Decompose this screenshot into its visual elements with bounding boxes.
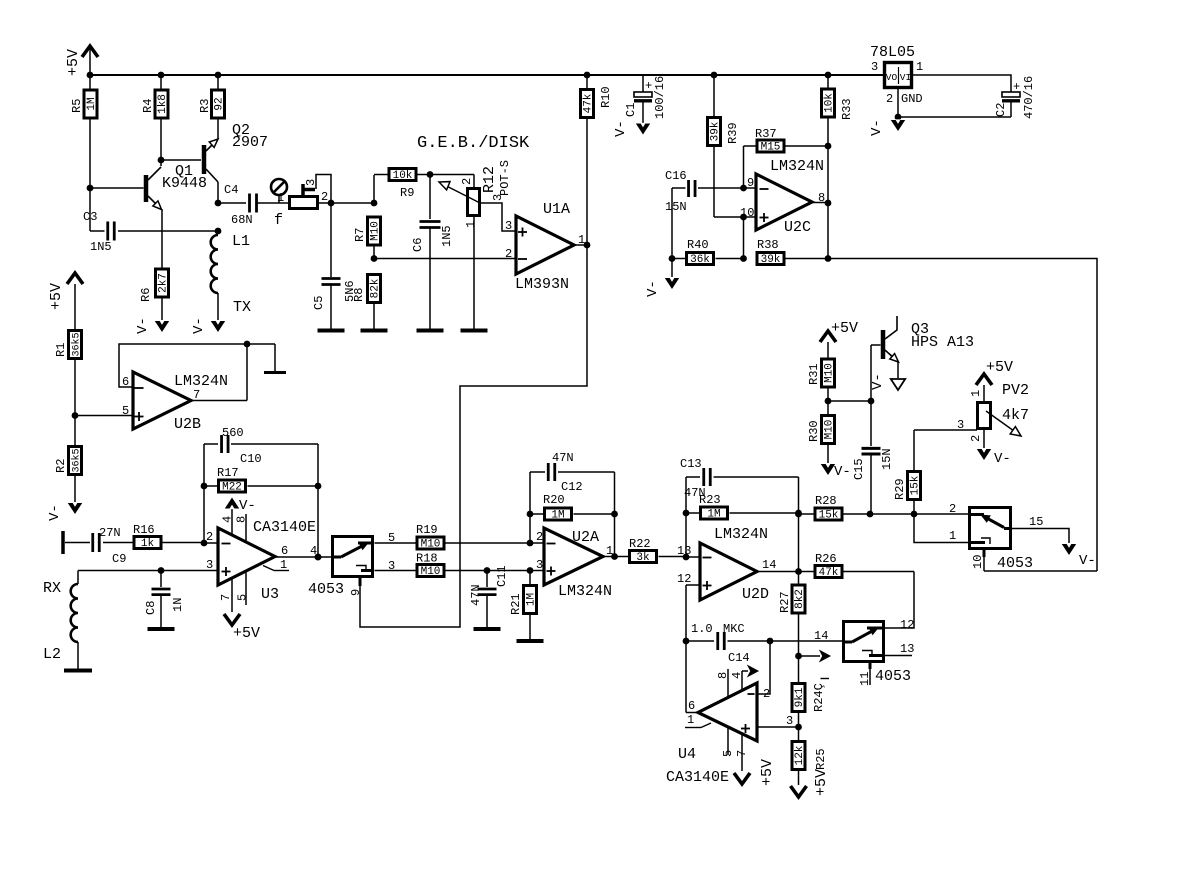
- wire C2 to 78L05 GND: [898, 116, 1011, 118]
- svg-text:12k: 12k: [794, 745, 806, 765]
- svg-text:2k7: 2k7: [158, 273, 170, 293]
- svg-text:V-: V-: [613, 120, 629, 137]
- svg-text:1: 1: [280, 558, 287, 572]
- power V- below L1: [211, 321, 225, 332]
- svg-text:2: 2: [949, 502, 956, 516]
- capacitor C2 470/16 electrolytic: [1002, 92, 1020, 97]
- junction C15/R28: [867, 511, 874, 518]
- svg-text:9k1: 9k1: [794, 687, 806, 707]
- svg-text:82k: 82k: [370, 278, 382, 298]
- svg-text:39k: 39k: [710, 121, 722, 141]
- wire U2A pin3 stub: [530, 570, 544, 572]
- svg-text:LM393N: LM393N: [515, 276, 569, 293]
- wire U2B feedback loop: [119, 344, 275, 387]
- U3 pin5: [245, 573, 247, 606]
- svg-text:1M: 1M: [526, 593, 538, 606]
- svg-text:47k: 47k: [583, 93, 595, 113]
- transistor Q2 2907: [202, 145, 207, 174]
- svg-text:68N: 68N: [231, 213, 253, 227]
- svg-text:U2B: U2B: [174, 416, 201, 433]
- svg-text:2: 2: [886, 92, 893, 106]
- wire U3 pin3 row: [78, 570, 218, 572]
- svg-text:R16: R16: [133, 523, 155, 537]
- power V- switch3: [1062, 544, 1076, 555]
- ground C6: [417, 329, 444, 333]
- U4 pin1 stub: [701, 723, 711, 728]
- wire U2D pin12 stub: [686, 584, 700, 586]
- capacitor C9 27N: [65, 542, 90, 544]
- wire R33 down to U2C output node: [827, 118, 829, 259]
- capacitor C8 1N: [160, 571, 162, 588]
- svg-text:M10: M10: [370, 221, 382, 241]
- wire 78L05 pin1 to C2: [913, 75, 1011, 92]
- svg-text:C12: C12: [561, 480, 583, 494]
- svg-text:PV2: PV2: [1002, 382, 1029, 399]
- svg-text:R6: R6: [139, 288, 153, 302]
- ground C11: [474, 627, 501, 631]
- node R7/R8 divider: [371, 255, 378, 262]
- svg-text:1k8: 1k8: [157, 94, 169, 114]
- capacitor C14 1.0 MKC: [686, 640, 714, 642]
- op-amp U3 CA3140E: [218, 528, 275, 585]
- svg-text:5: 5: [388, 531, 395, 545]
- wire R5 to Q1 base node: [89, 120, 91, 189]
- junction U2D out / R26: [795, 568, 802, 575]
- svg-text:LM324N: LM324N: [714, 526, 768, 543]
- svg-text:8: 8: [716, 672, 730, 679]
- svg-text:V-: V-: [1079, 553, 1096, 569]
- svg-text:R12: R12: [481, 166, 498, 193]
- resistor R19 M10: [375, 542, 417, 544]
- svg-text:R37: R37: [755, 127, 777, 141]
- analog switch 4053 #2 (U5b): [844, 622, 884, 662]
- svg-text:M22: M22: [222, 482, 242, 494]
- svg-text:92: 92: [214, 97, 226, 110]
- coil L2 RX: [77, 571, 79, 585]
- junction Q1-collector/Q2-base: [158, 157, 165, 164]
- svg-text:39k: 39k: [761, 254, 781, 266]
- junction R28/R29/switch: [911, 511, 918, 518]
- junction bus-R3: [215, 72, 222, 79]
- svg-text:C10: C10: [240, 452, 262, 466]
- wire U2B pin5: [75, 415, 133, 417]
- junction U2C out: [825, 200, 832, 207]
- wire GEB signal to switch U5 pin10: [828, 259, 1097, 572]
- power V- below R6: [155, 321, 169, 332]
- svg-text:+5V: +5V: [813, 769, 830, 796]
- svg-text:1: 1: [464, 221, 478, 228]
- svg-text:36k: 36k: [690, 254, 710, 266]
- wire U2A pin2 stub: [530, 542, 544, 544]
- capacitor C4 68N: [218, 202, 246, 204]
- pot PV2 4k7: [978, 403, 991, 429]
- op-amp U2B LM324N: [133, 372, 191, 429]
- junction R16/U3 pin2: [201, 540, 208, 547]
- svg-text:R29: R29: [893, 478, 907, 500]
- svg-text:R39: R39: [726, 122, 740, 144]
- resistor R20 1M: [527, 511, 534, 518]
- wire U2A output: [603, 556, 615, 558]
- svg-text:1N5: 1N5: [440, 225, 454, 247]
- wire up to R9: [373, 175, 375, 203]
- junction R38/R33/U2C-out: [825, 255, 832, 262]
- svg-text:f: f: [274, 212, 283, 229]
- svg-text:8: 8: [235, 516, 249, 523]
- wire U2C pin10 row: [714, 216, 756, 218]
- svg-text:9: 9: [747, 176, 754, 190]
- wire R12 pin1 to ground: [473, 217, 475, 329]
- svg-text:9: 9: [349, 589, 363, 596]
- svg-text:R26: R26: [815, 552, 837, 566]
- svg-text:8k2: 8k2: [794, 589, 806, 609]
- svg-text:R22: R22: [629, 537, 651, 551]
- svg-text:1N5: 1N5: [90, 240, 112, 254]
- wire down to switch pin1: [914, 514, 968, 543]
- coil L1 TX: [211, 235, 218, 293]
- U3 pin1 stub: [263, 566, 274, 571]
- svg-text:MKC: MKC: [723, 622, 745, 636]
- svg-text:V-: V-: [135, 317, 151, 334]
- wire U3 pin2 stub: [204, 542, 218, 544]
- svg-text:1M: 1M: [86, 97, 98, 110]
- svg-text:R18: R18: [416, 552, 438, 566]
- pot R12 POT-S: [430, 174, 474, 176]
- wire R26 to switch pin12: [885, 572, 914, 629]
- svg-text:1k: 1k: [141, 538, 155, 550]
- wire Q1 base: [90, 187, 144, 189]
- svg-text:3: 3: [957, 418, 964, 432]
- junction C14 right: [767, 638, 774, 645]
- svg-text:10: 10: [971, 555, 985, 569]
- svg-text:27N: 27N: [99, 526, 121, 540]
- U3 pin8: [245, 514, 247, 542]
- svg-text:C15: C15: [852, 458, 866, 480]
- resistor R5 1M: [89, 75, 91, 89]
- junction R24/R25/U4 pin3: [795, 724, 802, 731]
- svg-text:R20: R20: [543, 493, 565, 507]
- svg-text:6: 6: [688, 699, 695, 713]
- power V- below R30: [821, 464, 835, 475]
- svg-text:C16: C16: [665, 169, 687, 183]
- svg-text:C14: C14: [728, 651, 750, 665]
- svg-text:3: 3: [786, 714, 793, 728]
- resistor R30 M10: [827, 401, 829, 415]
- junction bus-R33: [825, 72, 832, 79]
- wire 78L05 pin2: [897, 89, 899, 117]
- svg-text:CA3140E: CA3140E: [666, 769, 729, 786]
- power +5V above R1: [67, 273, 83, 284]
- ground R21: [517, 639, 544, 643]
- svg-text:U3: U3: [261, 586, 279, 603]
- op-amp U4 CA3140E (mirrored): [698, 683, 757, 741]
- wire U3 out to switch pin4: [275, 556, 332, 558]
- junction U2D pin13: [683, 554, 690, 561]
- svg-text:15: 15: [1029, 515, 1043, 529]
- node R7/R9: [371, 200, 378, 207]
- svg-text:R27: R27: [778, 591, 792, 613]
- junction pin10/R38 branch: [740, 214, 747, 221]
- power +5V terminal (top-left): [82, 46, 98, 57]
- svg-text:15N: 15N: [880, 448, 894, 470]
- resistor R38 39k: [757, 253, 784, 265]
- svg-text:M10: M10: [824, 363, 836, 383]
- svg-text:2: 2: [321, 190, 328, 204]
- svg-text:RX: RX: [43, 580, 61, 597]
- junction L1 top: [215, 228, 222, 235]
- junction R40/R38/pin10: [740, 255, 747, 262]
- svg-text:47N: 47N: [552, 451, 574, 465]
- power V- R40 node: [671, 259, 673, 278]
- junction U2A out / R22: [611, 553, 618, 560]
- svg-text:LM324N: LM324N: [770, 158, 824, 175]
- capacitor C5 5N6: [330, 203, 332, 277]
- trimmer R24 9k1: [798, 656, 800, 683]
- junction U2B loop: [244, 341, 251, 348]
- svg-text:M10: M10: [421, 539, 441, 551]
- svg-text:4k7: 4k7: [1002, 407, 1029, 424]
- ground C5: [318, 329, 345, 333]
- svg-text:1: 1: [916, 60, 923, 74]
- wire R3 to Q2: [217, 120, 219, 140]
- svg-text:47N: 47N: [469, 584, 483, 606]
- svg-text:15k: 15k: [910, 475, 922, 495]
- resistor R18 M10: [375, 570, 417, 572]
- svg-text:560: 560: [222, 426, 244, 440]
- wire U2D pin13 stub: [686, 556, 700, 558]
- svg-text:2: 2: [536, 530, 543, 544]
- svg-text:C11: C11: [495, 565, 509, 587]
- svg-text:R8: R8: [352, 288, 366, 302]
- svg-text:C4: C4: [224, 183, 238, 197]
- node C4/Q2 junction: [215, 200, 222, 207]
- svg-text:4: 4: [221, 516, 235, 523]
- resistor R3 92: [217, 75, 219, 89]
- power +5V below R25: [791, 786, 807, 797]
- svg-text:+5V: +5V: [759, 759, 776, 786]
- svg-text:R30: R30: [807, 420, 821, 442]
- svg-text:13: 13: [677, 544, 691, 558]
- U4 pin7 with +5V: [741, 734, 743, 771]
- resistor R28 15k: [795, 511, 802, 518]
- op-amp U2D LM324N: [700, 543, 757, 600]
- wire Q2 base: [163, 159, 201, 161]
- svg-text:+5V: +5V: [986, 359, 1013, 376]
- svg-text:R1: R1: [54, 343, 68, 357]
- node pot pin2: [328, 200, 335, 207]
- capacitor C15 15N: [870, 401, 872, 446]
- svg-text:R4: R4: [141, 99, 155, 113]
- resistor R37 M15 feedback: [744, 145, 757, 147]
- svg-text:1N: 1N: [171, 598, 185, 612]
- wire R12 pin3 to U1A: [481, 203, 516, 231]
- svg-text:R17: R17: [217, 466, 239, 480]
- wire pot pin2 to R7/R9 node: [319, 202, 374, 204]
- junction R1/R2/pin5: [72, 412, 79, 419]
- svg-text:V-: V-: [869, 119, 885, 136]
- junction U3 out: [315, 554, 322, 561]
- ground R8: [361, 329, 388, 333]
- svg-text:U2C: U2C: [784, 219, 811, 236]
- capacitor C13 47N feedback: [686, 476, 700, 478]
- wire switch3 pin15 to V-: [1012, 529, 1069, 544]
- capacitor C6 1N5: [429, 175, 431, 220]
- junction C14 left: [683, 638, 690, 645]
- svg-text:2: 2: [206, 530, 213, 544]
- resistor R22 3k: [615, 556, 629, 558]
- resistor R23 1M: [683, 510, 690, 517]
- svg-text:C8: C8: [144, 601, 158, 615]
- svg-text:POT-S: POT-S: [498, 160, 512, 196]
- wire pin12 down to C14: [685, 585, 687, 641]
- junction Q1-base/R5/C3: [87, 185, 94, 192]
- svg-text:1: 1: [969, 390, 983, 397]
- U2B output stub termination: [274, 344, 276, 371]
- svg-text:14: 14: [814, 629, 828, 643]
- wire U1A output: [574, 244, 587, 246]
- wire U4 pin3: [757, 726, 799, 728]
- svg-text:+: +: [1013, 80, 1020, 94]
- wire +5V bus: [90, 74, 883, 76]
- svg-text:12: 12: [900, 618, 914, 632]
- svg-text:4053: 4053: [308, 581, 344, 598]
- svg-text:U4: U4: [678, 746, 696, 763]
- svg-text:13: 13: [900, 642, 914, 656]
- op-amp U1A LM393N: [516, 216, 574, 274]
- svg-text:2907: 2907: [232, 134, 268, 151]
- wire C14 to U4 pin2: [757, 641, 770, 694]
- U3 pin4 with V-: [231, 509, 233, 535]
- wire switch3 pin10 row: [984, 570, 1097, 572]
- power V- Q3 emitter: [891, 379, 905, 390]
- wire R7/R8 node to U1A pin2: [374, 258, 516, 260]
- capacitor C16 15N: [672, 187, 686, 189]
- svg-text:TX: TX: [233, 299, 251, 316]
- svg-text:M10: M10: [421, 566, 441, 578]
- op-amp U2C LM324N: [756, 174, 812, 230]
- svg-text:U1A: U1A: [543, 201, 570, 218]
- svg-text:+: +: [645, 79, 652, 93]
- U4 pin5: [727, 728, 729, 756]
- junction bus-R4: [158, 72, 165, 79]
- svg-text:HPS A13: HPS A13: [911, 334, 974, 351]
- svg-text:R9: R9: [400, 186, 414, 200]
- svg-text:C6: C6: [411, 238, 425, 252]
- resistor R29 15k: [913, 430, 915, 471]
- svg-text:R3: R3: [198, 99, 212, 113]
- wire R4 to Q1 collector: [160, 120, 162, 167]
- svg-text:4053: 4053: [997, 555, 1033, 572]
- junction U1A out / R10: [584, 242, 591, 249]
- analog switch 4053 #3 (U5a): [970, 508, 1011, 549]
- svg-text:M10: M10: [824, 420, 836, 440]
- junction pin9 node: [740, 185, 747, 192]
- svg-text:4: 4: [730, 672, 744, 679]
- wire U1A out to switch control: [360, 245, 587, 627]
- junction Q3 base / C15: [868, 398, 875, 405]
- wire U2C output: [812, 202, 828, 204]
- resistor R7 M10: [368, 217, 381, 245]
- capacitor C10 560 feedback: [204, 443, 218, 445]
- resistor R25 12k: [798, 727, 800, 741]
- resistor R8 82k: [368, 275, 381, 303]
- svg-text:CA3140E: CA3140E: [253, 519, 316, 536]
- svg-text:3k: 3k: [636, 552, 650, 564]
- junction pin3/C8: [158, 567, 165, 574]
- wire U4 pin6 stub: [686, 712, 698, 714]
- wire pin10 down to R38: [743, 217, 745, 259]
- svg-text:15N: 15N: [665, 200, 687, 214]
- wire U2D output: [757, 571, 799, 573]
- terminal f (test point): [271, 179, 287, 195]
- svg-text:+5V: +5V: [65, 49, 82, 76]
- resistor R6 2k7: [156, 269, 169, 297]
- op-amp U2A LM324N: [544, 528, 603, 585]
- svg-text:C3: C3: [83, 210, 97, 224]
- resistor R33 10k: [827, 75, 829, 88]
- svg-text:LM324N: LM324N: [558, 583, 612, 600]
- resistor R4 1k8: [160, 75, 162, 89]
- junction bus-R5: [87, 72, 94, 79]
- junction bus-R39: [711, 72, 718, 79]
- voltage regulator 78L05: [885, 63, 912, 88]
- svg-text:+5V: +5V: [48, 283, 65, 310]
- trimmer wiper wire to pin 2: [316, 175, 331, 204]
- capacitor C3 1N5: [89, 188, 91, 231]
- svg-text:R40: R40: [687, 238, 709, 252]
- wire R37 to pin9: [743, 146, 745, 188]
- resistor R21 1M: [529, 571, 531, 586]
- svg-text:15k: 15k: [819, 510, 839, 522]
- U4 pin4 with arrow: [741, 671, 743, 691]
- wire C10/R17 right leg: [317, 444, 319, 557]
- junction R40 left / C16 / V-: [669, 255, 676, 262]
- resistor R16 1k: [134, 537, 161, 549]
- junction R37/R33: [825, 143, 832, 150]
- resistor R31 M10: [822, 359, 835, 387]
- junction R18/C11: [484, 567, 491, 574]
- svg-text:2: 2: [505, 247, 512, 261]
- svg-text:R21: R21: [509, 593, 523, 615]
- wire C16 left leg down: [671, 188, 673, 259]
- U3 pin7 with +5V: [231, 579, 233, 612]
- svg-text:470/16: 470/16: [1022, 76, 1036, 119]
- svg-text:3: 3: [491, 194, 505, 201]
- svg-text:3: 3: [388, 559, 395, 573]
- svg-text:1M: 1M: [551, 510, 564, 522]
- junction R31/R30/Q3: [825, 398, 832, 405]
- power V- below C1: [636, 124, 650, 135]
- wire U3 output: [275, 556, 276, 559]
- svg-text:+5V: +5V: [233, 625, 260, 642]
- svg-text:3: 3: [505, 219, 512, 233]
- svg-text:2: 2: [969, 435, 983, 442]
- junction pin4: [315, 554, 322, 561]
- svg-text:V-: V-: [47, 504, 63, 521]
- svg-text:R7: R7: [353, 228, 367, 242]
- svg-text:C1: C1: [624, 103, 638, 117]
- resistor R2 36k5: [74, 416, 76, 447]
- svg-text:7: 7: [735, 750, 749, 757]
- wire PV2 pin3 to R29: [914, 429, 977, 431]
- svg-text:3: 3: [304, 179, 318, 186]
- svg-text:V-: V-: [834, 464, 851, 480]
- resistor R27 8k2: [798, 572, 800, 585]
- transistor Q3 HPS A13: [870, 345, 872, 401]
- svg-text:VI: VI: [900, 72, 911, 83]
- resistor R26 47k: [815, 566, 842, 578]
- svg-text:V-: V-: [870, 373, 886, 390]
- svg-text:8: 8: [818, 191, 825, 205]
